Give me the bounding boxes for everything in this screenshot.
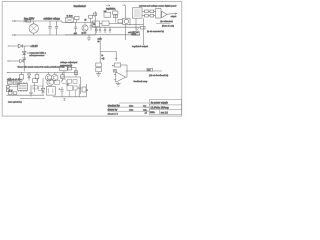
resistor network R10 xyxy=(142,9,161,19)
component box U3 xyxy=(104,11,111,17)
wire mid rail xyxy=(92,26,140,28)
svg-text:out: out xyxy=(147,69,150,72)
component D4 xyxy=(27,72,30,80)
op-amp U7 xyxy=(114,72,126,82)
cluster under xyxy=(62,79,77,84)
svg-text:output: output xyxy=(171,15,177,18)
svg-text:dc power supply: dc power supply xyxy=(151,101,169,104)
part box above rail right xyxy=(89,15,93,22)
wire branch to feedback xyxy=(100,52,116,58)
ground G1 xyxy=(96,74,101,77)
wire bottom rail xyxy=(53,96,87,98)
wire x95 lower xyxy=(98,72,100,74)
svg-text:(to voltmeter): (to voltmeter) xyxy=(160,20,173,23)
ground under rail xyxy=(87,35,91,41)
svg-text:date: date xyxy=(129,108,134,111)
component D5 xyxy=(113,9,118,23)
title block right text xyxy=(145,101,170,114)
capacitor C7 xyxy=(109,27,111,33)
svg-text:(from dc out): (from dc out) xyxy=(162,24,174,27)
svg-text:q1 bd: q1 bd xyxy=(81,32,86,34)
svg-text:k2: k2 xyxy=(67,84,69,86)
svg-text:a4: a4 xyxy=(145,113,147,115)
title left table text xyxy=(108,104,147,115)
ground G2 xyxy=(116,82,121,86)
capacitor C11 xyxy=(67,84,73,97)
transformer T1 xyxy=(66,18,74,23)
vertical x80 xyxy=(80,77,82,94)
junction marks xyxy=(136,28,139,31)
wire top rail xyxy=(15,20,50,22)
wire vertical divider xyxy=(23,46,25,72)
svg-text:case ground p: case ground p xyxy=(8,100,23,103)
cluster near x95 xyxy=(96,63,102,72)
node AC input terminal L xyxy=(12,21,16,22)
svg-text:+13.8V: +13.8V xyxy=(30,46,38,48)
component box C xyxy=(33,79,38,92)
transistor Q1 xyxy=(82,22,88,31)
wire main bus xyxy=(10,71,78,73)
svg-text:in: in xyxy=(102,55,104,57)
svg-text:+: + xyxy=(87,89,89,91)
capacitor C8 xyxy=(23,58,26,60)
capacitor small xyxy=(9,78,22,82)
label box on out wire xyxy=(147,68,153,71)
svg-text:drawn by: drawn by xyxy=(108,108,119,111)
svg-text:d9: d9 xyxy=(84,20,87,22)
title block left table xyxy=(108,103,150,111)
transistor Q2 xyxy=(45,72,51,80)
svg-text:rev 1.0: rev 1.0 xyxy=(161,111,169,114)
resistor R4 xyxy=(35,72,39,81)
wire rail through transformer xyxy=(50,20,62,22)
wire reg out xyxy=(99,22,102,24)
shunt box xyxy=(132,32,140,36)
regulator U2 xyxy=(92,21,99,27)
wire short rail xyxy=(60,76,81,78)
capacitor C4 xyxy=(95,27,97,33)
svg-text:voltage adjust pnl: voltage adjust pnl xyxy=(60,61,78,64)
title block right box xyxy=(144,100,181,115)
resistor R3 xyxy=(20,72,24,79)
svg-text:sheet 1 / 1: sheet 1 / 1 xyxy=(108,112,119,115)
transistor Q3 xyxy=(52,72,58,80)
wire small horiz xyxy=(129,23,143,25)
svg-text:these wire must connect to mai: these wire must connect to main power xyxy=(18,66,56,69)
component box C2 xyxy=(33,85,37,89)
svg-text:c7 r9: c7 r9 xyxy=(8,89,12,92)
op-amp IC U5 xyxy=(132,8,142,18)
diode D3 xyxy=(20,59,24,62)
connector chevron xyxy=(24,20,28,22)
svg-text:num.: num. xyxy=(150,112,155,114)
border frame xyxy=(2,2,182,117)
svg-text:ic2: ic2 xyxy=(104,11,108,13)
component box J xyxy=(118,20,123,23)
small parts bottom xyxy=(8,89,17,94)
wire main vertical V+ xyxy=(94,11,96,35)
svg-text:(.5v dc feedback in): (.5v dc feedback in) xyxy=(149,75,168,77)
cluster mid text labels xyxy=(102,55,105,60)
node AC input terminal N xyxy=(12,35,16,36)
svg-text:t1 12v: t1 12v xyxy=(67,15,74,18)
svg-text:+: + xyxy=(112,65,114,67)
IC X1 xyxy=(18,82,28,92)
capacitor C9 xyxy=(29,85,32,97)
svg-text:connected with a: connected with a xyxy=(29,51,46,54)
capacitor C6 xyxy=(104,27,106,33)
feedback wire loop xyxy=(121,65,127,71)
svg-text:current and voltage meter digi: current and voltage meter digital panel xyxy=(139,4,177,7)
wire vertical from IC xyxy=(142,18,144,45)
relay K1 xyxy=(123,18,130,24)
svg-text:checked by: checked by xyxy=(108,104,121,107)
terminal lower input xyxy=(7,60,19,62)
component box B xyxy=(13,80,19,85)
label zener two lines xyxy=(27,51,47,57)
wire vertical xyxy=(75,67,77,77)
arrow mark top xyxy=(106,5,110,7)
diode box above rail xyxy=(75,16,79,22)
bridge rectifier BR1 xyxy=(29,21,38,35)
diode D6 xyxy=(41,78,44,95)
regulator U4 xyxy=(102,21,109,25)
transistor Q4 xyxy=(47,79,54,86)
svg-text:regulator: regulator xyxy=(106,7,115,10)
svg-text:sz: sz xyxy=(145,109,147,111)
svg-text:date: date xyxy=(129,104,134,107)
capacitor C10 xyxy=(59,87,64,97)
component box D xyxy=(55,80,60,84)
wire meter output arrow xyxy=(167,13,177,18)
svg-text:fuse 250V: fuse 250V xyxy=(24,19,35,21)
component box C3 xyxy=(37,86,43,90)
component box E xyxy=(74,86,78,97)
wire bottom left xyxy=(6,94,44,96)
component box H xyxy=(68,66,72,70)
svg-text:c10: c10 xyxy=(74,33,77,35)
capacitor C12 xyxy=(74,22,77,32)
component box A xyxy=(8,81,12,85)
small parts near vertical top xyxy=(93,13,97,17)
svg-text:low voltage: low voltage xyxy=(49,18,61,21)
wire vertical B xyxy=(99,37,101,64)
svg-text:regulated output: regulated output xyxy=(132,45,148,48)
zener D2 xyxy=(22,51,26,54)
feedback cluster xyxy=(112,57,120,67)
wire op-amp out xyxy=(126,70,162,72)
svg-text:microprocessor: microprocessor xyxy=(29,54,44,57)
capacitor C13 xyxy=(90,22,93,30)
op-amp U6 xyxy=(162,11,168,17)
svg-text:(to dc ammeter in): (to dc ammeter in) xyxy=(147,30,164,33)
wire long vertical right xyxy=(124,6,126,19)
junction mark below rail xyxy=(63,99,66,101)
svg-text:transformer: transformer xyxy=(74,5,86,8)
capacitor C5 xyxy=(99,27,101,33)
svg-text:rev: rev xyxy=(143,104,147,107)
diode D1 row xyxy=(8,44,30,48)
resistor R5 xyxy=(61,72,64,81)
component box G xyxy=(60,66,76,77)
small parts left xyxy=(6,86,17,92)
svg-text:dc: dc xyxy=(97,41,99,43)
node bus terminal xyxy=(7,71,10,73)
wire bottom rail xyxy=(15,34,95,36)
svg-text:feedback amp: feedback amp xyxy=(134,81,149,83)
resistor R7 xyxy=(113,70,117,72)
capacitor C2 xyxy=(55,21,58,35)
resistor R6 xyxy=(74,71,77,75)
svg-text:78: 78 xyxy=(93,24,96,26)
svg-text:13.8Vdc 25Amp: 13.8Vdc 25Amp xyxy=(150,105,169,109)
component F xyxy=(78,85,89,97)
svg-text:shnt: shnt xyxy=(132,33,136,36)
relay box xyxy=(47,87,56,96)
wire vertical right xyxy=(85,84,87,97)
capacitor C1 xyxy=(48,21,51,35)
wire lower mid rail xyxy=(65,34,140,36)
svg-text:adj: adj xyxy=(102,58,105,60)
fuse F1 xyxy=(27,20,31,22)
